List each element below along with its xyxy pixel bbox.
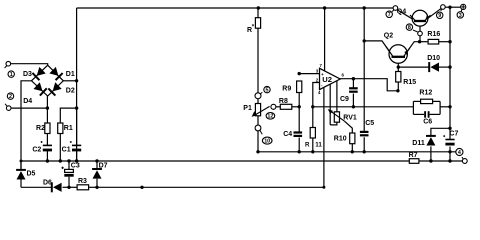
- node terminal2/R2 junction: [46, 106, 49, 109]
- svg-text:R: R: [305, 142, 310, 149]
- node label 9: [437, 12, 443, 19]
- wire bridge bottom corner drop: [46, 96, 48, 108]
- capacitor C3: [61, 162, 79, 175]
- wire C4 to aux rail: [298, 138, 300, 152]
- wire U2 pin7 to top rail: [324, 8, 326, 71]
- wire bridge right corner to plus vertical: [63, 80, 76, 82]
- capacitor C7: [443, 131, 458, 145]
- potentiometer P1: [243, 104, 269, 117]
- wire bottom rail long: [97, 186, 324, 188]
- capacitor C1: [62, 141, 82, 154]
- node D11-hook on output line: [448, 127, 451, 130]
- wire terminal9 to output top: [445, 6, 450, 8]
- wire terminal1 to bridge top: [10, 64, 47, 65]
- wire C3 bottom: [68, 177, 70, 188]
- wire Q2 emitter run: [404, 42, 420, 56]
- wire R* to terminal5 bubble: [257, 28, 259, 93]
- node main/left-vertical junction: [20, 160, 23, 163]
- resistor R1: [58, 123, 73, 134]
- wire U2 pin5 to RV1 top: [336, 81, 338, 112]
- svg-text:4: 4: [458, 150, 461, 156]
- wire C2 to main rail: [46, 150, 48, 161]
- resistor R11: [305, 128, 322, 149]
- terminal pad-10: [255, 125, 262, 134]
- diode D10: [427, 55, 440, 72]
- wire C7 bottom to aux: [449, 147, 451, 152]
- wire Q4 collector: [397, 10, 415, 21]
- wire U2 output: [340, 79, 398, 91]
- wire feedback to R12C6 left: [412, 106, 414, 108]
- wire RV1 bottom wrap: [330, 122, 337, 125]
- wire bottom rail D6-R3: [63, 186, 78, 188]
- diode D6: [43, 179, 62, 192]
- diode D3 (bridge): [23, 67, 46, 80]
- wire D7 bottom lead: [96, 179, 98, 188]
- node label 7: [386, 11, 392, 18]
- svg-text:D6: D6: [43, 179, 52, 186]
- svg-text:C4: C4: [283, 131, 292, 138]
- svg-text:6: 6: [342, 72, 345, 77]
- trimmer RV1: [328, 109, 357, 122]
- svg-text:Q4: Q4: [397, 9, 406, 16]
- svg-text:D4: D4: [23, 98, 32, 105]
- wire C5 to aux rail: [363, 137, 365, 152]
- wire Q2 collector: [364, 41, 392, 56]
- wire R1 to main rail: [59, 134, 61, 162]
- wire wiper bubble to R8: [276, 106, 281, 108]
- node label 1: [8, 71, 14, 78]
- terminal pad-7: [392, 6, 398, 12]
- wire main rail left segment: [21, 160, 409, 162]
- wire output vertical upper: [449, 7, 451, 139]
- wire D10 to output line: [438, 66, 450, 68]
- wire bubble5 to P1: [257, 99, 259, 104]
- svg-text:R1: R1: [64, 125, 73, 132]
- wire R2-C2: [46, 134, 48, 146]
- wire D7 top lead: [96, 161, 98, 169]
- wire aux rail: [258, 151, 456, 153]
- node Q2 collector junction: [363, 39, 366, 42]
- terminal output-plus: [461, 4, 466, 11]
- node pin7 on top rail: [323, 6, 326, 9]
- wire plus-line to C1: [76, 108, 78, 145]
- wire terminal2 to bridge bottom node: [11, 107, 47, 109]
- svg-text:Q2: Q2: [384, 33, 393, 40]
- node C4 on aux rail: [298, 150, 301, 153]
- svg-text:C2: C2: [32, 147, 41, 154]
- node C9 output junction: [352, 77, 355, 80]
- svg-text:+: +: [321, 72, 324, 77]
- terminal pad-9: [441, 5, 446, 11]
- node D11 on main rail: [429, 159, 432, 162]
- wire output to R12C6: [440, 106, 450, 108]
- svg-text:C5: C5: [365, 120, 374, 127]
- node D7 top junction: [95, 159, 98, 162]
- wire R1 top hook: [60, 108, 76, 123]
- node bottom rail mystery junction: [140, 186, 143, 189]
- svg-text:R16: R16: [427, 31, 440, 38]
- wire Q4 base to node: [419, 36, 421, 42]
- svg-text:D5: D5: [27, 171, 36, 178]
- svg-text:R10: R10: [334, 136, 347, 143]
- diode D1 (bridge): [49, 67, 75, 80]
- svg-text:C3: C3: [71, 162, 80, 169]
- wire D11 bottom: [430, 146, 432, 161]
- svg-text:9: 9: [438, 13, 441, 19]
- node R* on top rail: [257, 6, 260, 9]
- svg-text:R3: R3: [78, 178, 87, 185]
- svg-text:P1: P1: [243, 105, 252, 112]
- svg-text:2: 2: [316, 77, 319, 82]
- svg-text:3: 3: [316, 68, 319, 73]
- diode D5: [16, 170, 35, 180]
- diode D7: [92, 163, 108, 179]
- capacitor C9: [340, 88, 358, 103]
- terminal pad-5: [255, 92, 262, 99]
- wire U2 pin2 hook: [313, 83, 320, 107]
- node R10 on aux rail: [351, 150, 354, 153]
- resistor R7: [409, 152, 419, 163]
- wire R11 top: [312, 107, 314, 128]
- wire bottom rail R3-D7: [89, 186, 97, 188]
- wire Q2base to D10: [398, 66, 429, 68]
- wire C1 to main rail: [76, 150, 78, 161]
- svg-text:2: 2: [9, 94, 12, 100]
- wire C9 top lead: [352, 79, 354, 88]
- wire C9 bottom lead: [352, 94, 354, 107]
- svg-text:U2: U2: [322, 75, 332, 84]
- resistor-capacitor R12 C6 parallel: [413, 89, 440, 125]
- wire output line aux to main: [449, 152, 451, 161]
- wire bubble10 to aux rail: [257, 131, 259, 152]
- svg-text:7: 7: [320, 63, 323, 68]
- svg-text:R7: R7: [409, 152, 418, 159]
- resistor R3: [77, 178, 89, 190]
- wire P1 to bubble10: [257, 116, 259, 125]
- svg-text:R15: R15: [403, 79, 416, 86]
- wire Q-collector vertical: [363, 8, 365, 132]
- node label 2: [7, 93, 13, 100]
- wire U2 pin4 down: [323, 87, 325, 187]
- node R16 on output line: [448, 40, 451, 43]
- node R9 top junction: [298, 72, 301, 75]
- wire R15 bottom: [397, 82, 399, 91]
- svg-text:D2: D2: [66, 87, 75, 94]
- svg-text:C7: C7: [449, 131, 458, 138]
- svg-text:3: 3: [459, 13, 462, 19]
- node R12C6 on output line: [448, 105, 451, 108]
- resistor R16: [427, 31, 440, 44]
- node output/R15 junction: [396, 89, 399, 92]
- terminal input-1: [5, 61, 11, 68]
- node pin2/feedback junction: [311, 105, 314, 108]
- svg-text:12: 12: [267, 114, 273, 120]
- node C7 on aux rail: [448, 150, 451, 153]
- node R11 on aux rail: [311, 150, 314, 153]
- svg-text:D1: D1: [66, 71, 75, 78]
- wire R9 bottom to R8 node: [298, 93, 300, 107]
- diode D4 (bridge): [23, 82, 46, 105]
- svg-text:RV1: RV1: [343, 114, 357, 121]
- terminal pad-8: [413, 30, 422, 36]
- node D7 bottom junction: [95, 186, 98, 189]
- node label 4: [456, 148, 463, 156]
- wire D11 top hook: [431, 128, 450, 135]
- resistor R8: [279, 98, 292, 110]
- wire C3 top: [68, 161, 70, 169]
- wire main rail right segment: [418, 160, 462, 162]
- svg-text:D10: D10: [427, 55, 440, 62]
- svg-text:D7: D7: [99, 163, 108, 170]
- svg-text:R12: R12: [419, 89, 432, 96]
- node C3 top junction: [67, 159, 70, 162]
- node bottom rail right corner: [322, 186, 325, 189]
- svg-text:D3: D3: [23, 71, 32, 78]
- resistor R2: [36, 123, 50, 134]
- node D10 on output line: [448, 65, 451, 68]
- terminal input-2: [5, 104, 11, 111]
- wire bridge left corner to left vertical: [21, 81, 32, 170]
- svg-text:5: 5: [266, 88, 269, 94]
- resistor R*: [247, 18, 261, 34]
- node label 12: [266, 113, 275, 120]
- wire U2 pin1 down: [329, 84, 331, 125]
- transistor Q2: [384, 33, 410, 64]
- wire R10 to aux rail: [351, 144, 353, 152]
- node C3 bottom junction: [67, 186, 70, 189]
- wire U2 pin3: [299, 73, 319, 75]
- wire R11 bottom: [312, 138, 314, 152]
- wire feedback line: [313, 106, 414, 108]
- wire R8 to R9 node: [292, 106, 299, 108]
- node label 5: [264, 86, 270, 93]
- svg-text:D11: D11: [412, 140, 425, 147]
- capacitor C4: [283, 131, 302, 138]
- terminal output-4: [462, 157, 467, 163]
- node output top junction: [448, 6, 451, 9]
- wire R16 to output line: [439, 41, 450, 43]
- transistor Q4: [397, 9, 431, 27]
- svg-text:1: 1: [10, 72, 13, 78]
- svg-text:10: 10: [264, 139, 270, 145]
- node label 3: [457, 12, 463, 19]
- wire to terminal3: [450, 6, 460, 8]
- wire D5 bottom to bottom rail: [20, 180, 22, 188]
- node Q4-base node: [418, 40, 421, 43]
- svg-text:11: 11: [315, 142, 322, 149]
- svg-text:7: 7: [388, 12, 391, 18]
- wire R* top lead: [257, 8, 259, 18]
- svg-text:4: 4: [318, 90, 321, 95]
- svg-text:C1: C1: [62, 147, 71, 154]
- svg-text:8: 8: [408, 25, 411, 31]
- node bridge+ junction: [75, 79, 78, 82]
- resistor R9: [282, 81, 302, 93]
- node label 8: [406, 24, 412, 31]
- node C1 on main rail: [75, 159, 78, 162]
- wire Q2 base lead: [397, 58, 399, 68]
- svg-text:*: *: [252, 24, 255, 30]
- node C2 on main rail: [46, 159, 49, 162]
- node label 10: [262, 137, 272, 144]
- wire top-left vertical (bridge + to top rail): [76, 8, 78, 161]
- svg-text:C9: C9: [340, 96, 349, 103]
- svg-text:C6: C6: [423, 119, 432, 126]
- wire Q4 base upper: [419, 23, 421, 31]
- resistor R10: [334, 133, 355, 144]
- capacitor C2: [32, 141, 52, 154]
- node R1/plus-line junction: [75, 106, 78, 109]
- node output on main rail: [448, 159, 451, 162]
- wire R9node to C4: [298, 107, 300, 132]
- svg-text:R8: R8: [279, 98, 288, 105]
- diode D2 (bridge): [48, 82, 74, 95]
- op-amp U2: [316, 63, 345, 95]
- node R8/R9 junction: [298, 105, 301, 108]
- node aux rail left corner: [256, 150, 259, 153]
- terminal pad-12 (wiper): [271, 104, 276, 109]
- wire node to R16: [420, 41, 429, 43]
- wire RV1 wiper to R10: [345, 121, 353, 133]
- capacitor C5: [360, 120, 374, 135]
- wire bottom rail D5-D6: [21, 186, 51, 188]
- wire top rail: [77, 7, 394, 9]
- node C9 feedback junction: [352, 105, 355, 108]
- wire bottom-left rail stub: [20, 160, 22, 171]
- node R1 on main rail: [59, 159, 62, 162]
- wire R15 top: [397, 67, 399, 71]
- svg-text:R9: R9: [282, 85, 291, 92]
- svg-text:R2: R2: [36, 125, 45, 132]
- wire Q4 emitter: [425, 8, 442, 20]
- node Q2 base node: [397, 65, 400, 68]
- resistor R15: [396, 72, 417, 86]
- node Q-line on top rail: [363, 6, 366, 9]
- wire R2 branch top: [46, 108, 48, 123]
- node C5 on aux rail: [363, 150, 366, 153]
- diode D11: [412, 136, 436, 147]
- wire bridge diamond: [32, 65, 64, 96]
